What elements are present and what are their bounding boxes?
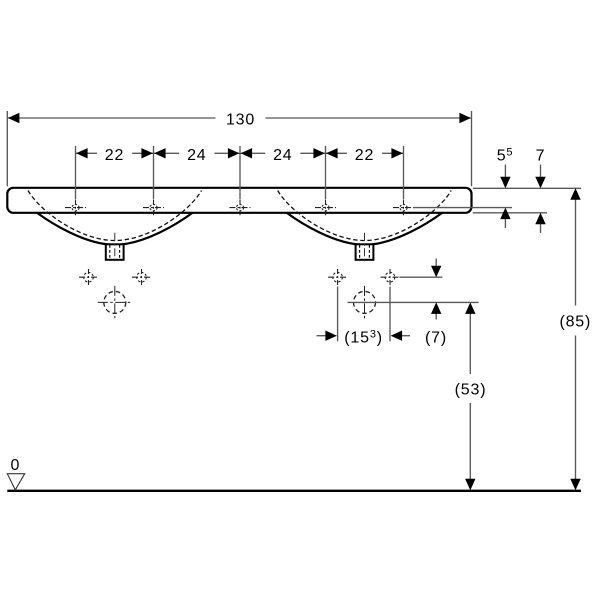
svg-text:7: 7 [536, 147, 546, 164]
line at circle level y=302.4 to the right [348, 301, 479, 303]
svg-text:22: 22 [355, 147, 374, 164]
slab bottom extension [473, 212, 547, 214]
svg-text:(53): (53) [455, 381, 487, 398]
left bowl hidden (dashed) arc [28, 191, 202, 241]
svg-text:24: 24 [187, 147, 206, 164]
(7) down arrow shaft + up arrow shaft [435, 259, 437, 267]
svg-text:(7): (7) [425, 330, 447, 347]
7 arrows shafts [540, 165, 542, 179]
left drain box [106, 233, 124, 264]
svg-text:130: 130 [226, 111, 255, 128]
130 left / right [8, 113, 20, 123]
(53) vertical line [469, 313, 471, 374]
datum triangle [7, 474, 24, 490]
row 153: 22 | 24 | 24 | 22 [76, 148, 88, 158]
line at cross level y=277.2 to the right [400, 276, 443, 278]
7 down arrow, up arrow [535, 177, 545, 189]
130 extension lines [6, 111, 8, 186]
right bowl solid arc [287, 213, 443, 245]
5.5 arrows shafts [504, 165, 506, 179]
svg-text:24: 24 [273, 147, 292, 164]
svg-text:0: 0 [11, 457, 20, 474]
85 top up arrow, bottom down arrow [570, 188, 580, 200]
right drain box [356, 233, 374, 264]
(85) vertical line [575, 199, 577, 306]
130 dim line (with text gap) [8, 117, 216, 119]
row y=153 dim line with gaps for 22,24,24,22 [76, 152, 97, 154]
svg-text:22: 22 [105, 147, 124, 164]
right side: top edge extension [473, 187, 581, 189]
22/24 extension lines [75, 146, 77, 199]
tap hole level extension [413, 207, 512, 209]
(7) arrows [431, 266, 441, 278]
svg-text:(153): (153) [344, 329, 383, 347]
right bowl hidden (dashed) arc [278, 191, 452, 241]
(15.3) dim tails [317, 335, 326, 337]
washbasin slab [7, 188, 471, 213]
5.5 down arrow, up arrow [500, 177, 510, 189]
53 top up arrow, bottom down arrow [465, 302, 475, 314]
left bowl solid arc [37, 213, 193, 245]
svg-text:(85): (85) [559, 313, 591, 330]
(15.3) extension lines down from crosses [337, 287, 339, 342]
(15.3) outside arrows [325, 331, 337, 341]
